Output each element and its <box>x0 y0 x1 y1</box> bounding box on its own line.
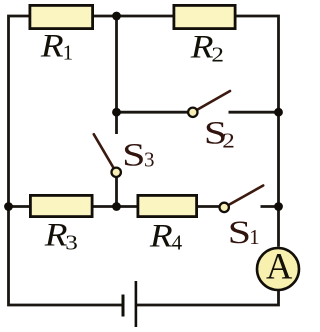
svg-text:2: 2 <box>211 43 224 67</box>
battery long plate (positive) <box>135 281 138 327</box>
svg-text:S: S <box>122 137 145 174</box>
switch S3 blade <box>94 134 113 167</box>
node junction dot S2-left on center wire <box>112 108 121 117</box>
resistor R4 <box>138 195 197 216</box>
svg-text:1: 1 <box>63 41 74 65</box>
wire top between R1 and R2 <box>94 15 173 18</box>
resistor R2 <box>174 5 235 28</box>
svg-text:3: 3 <box>144 148 155 172</box>
switch S2 pivot <box>188 108 197 117</box>
label R2 <box>190 28 214 65</box>
svg-text:R: R <box>149 217 173 254</box>
ammeter A1 body <box>257 248 299 290</box>
wire S2 branch from center junction to S2 pivot <box>117 111 189 114</box>
node junction dot top (center wire / top wire) <box>112 12 121 21</box>
resistor R3 <box>30 195 92 216</box>
node junction dot center (R3/R4/S3) <box>112 202 121 211</box>
svg-text:S: S <box>228 214 251 251</box>
label R4 <box>149 217 173 254</box>
label S1 <box>228 214 251 251</box>
wire S1 fixed-contact stub to right wire <box>261 205 279 208</box>
svg-text:1: 1 <box>249 225 260 249</box>
svg-text:R: R <box>40 27 64 64</box>
svg-text:4: 4 <box>172 231 183 255</box>
label S3 <box>122 137 145 174</box>
svg-text:3: 3 <box>65 231 78 255</box>
svg-text:R: R <box>44 216 68 253</box>
node junction dot middle-left on left wire <box>4 202 13 211</box>
wire outer loop left: top-left corner down to battery <box>9 16 123 305</box>
battery short plate (negative) <box>122 295 125 317</box>
wire middle row: R3 to R4 through junction <box>94 205 137 208</box>
switch S1 blade <box>229 186 263 205</box>
wire bottom-right: battery to corner up to ammeter <box>136 291 279 305</box>
wire center vertical lower (S3 pivot to middle junction) <box>115 177 118 207</box>
switch S2 blade <box>198 91 230 109</box>
wire outer loop top-right: R2 to right corner down to ammeter <box>236 16 279 247</box>
wire middle row: left wire to R3 <box>9 205 30 208</box>
svg-text:2: 2 <box>222 130 235 154</box>
label R1 <box>40 27 64 64</box>
label S2 <box>204 115 227 152</box>
node junction dot S2-right on right wire <box>274 108 283 117</box>
wire middle row: R4 to S1 pivot <box>198 205 219 208</box>
wire center vertical upper (top junction to S3 contact) <box>115 16 118 134</box>
node junction dot S1-right on right wire <box>274 202 283 211</box>
wire S2 fixed-contact stub to right wire <box>229 111 279 114</box>
svg-text:A: A <box>266 246 293 287</box>
resistor R1 <box>30 5 93 28</box>
svg-text:R: R <box>190 28 214 65</box>
switch S3 pivot <box>112 168 121 177</box>
label R3 <box>44 216 68 253</box>
switch S1 pivot <box>220 203 229 212</box>
